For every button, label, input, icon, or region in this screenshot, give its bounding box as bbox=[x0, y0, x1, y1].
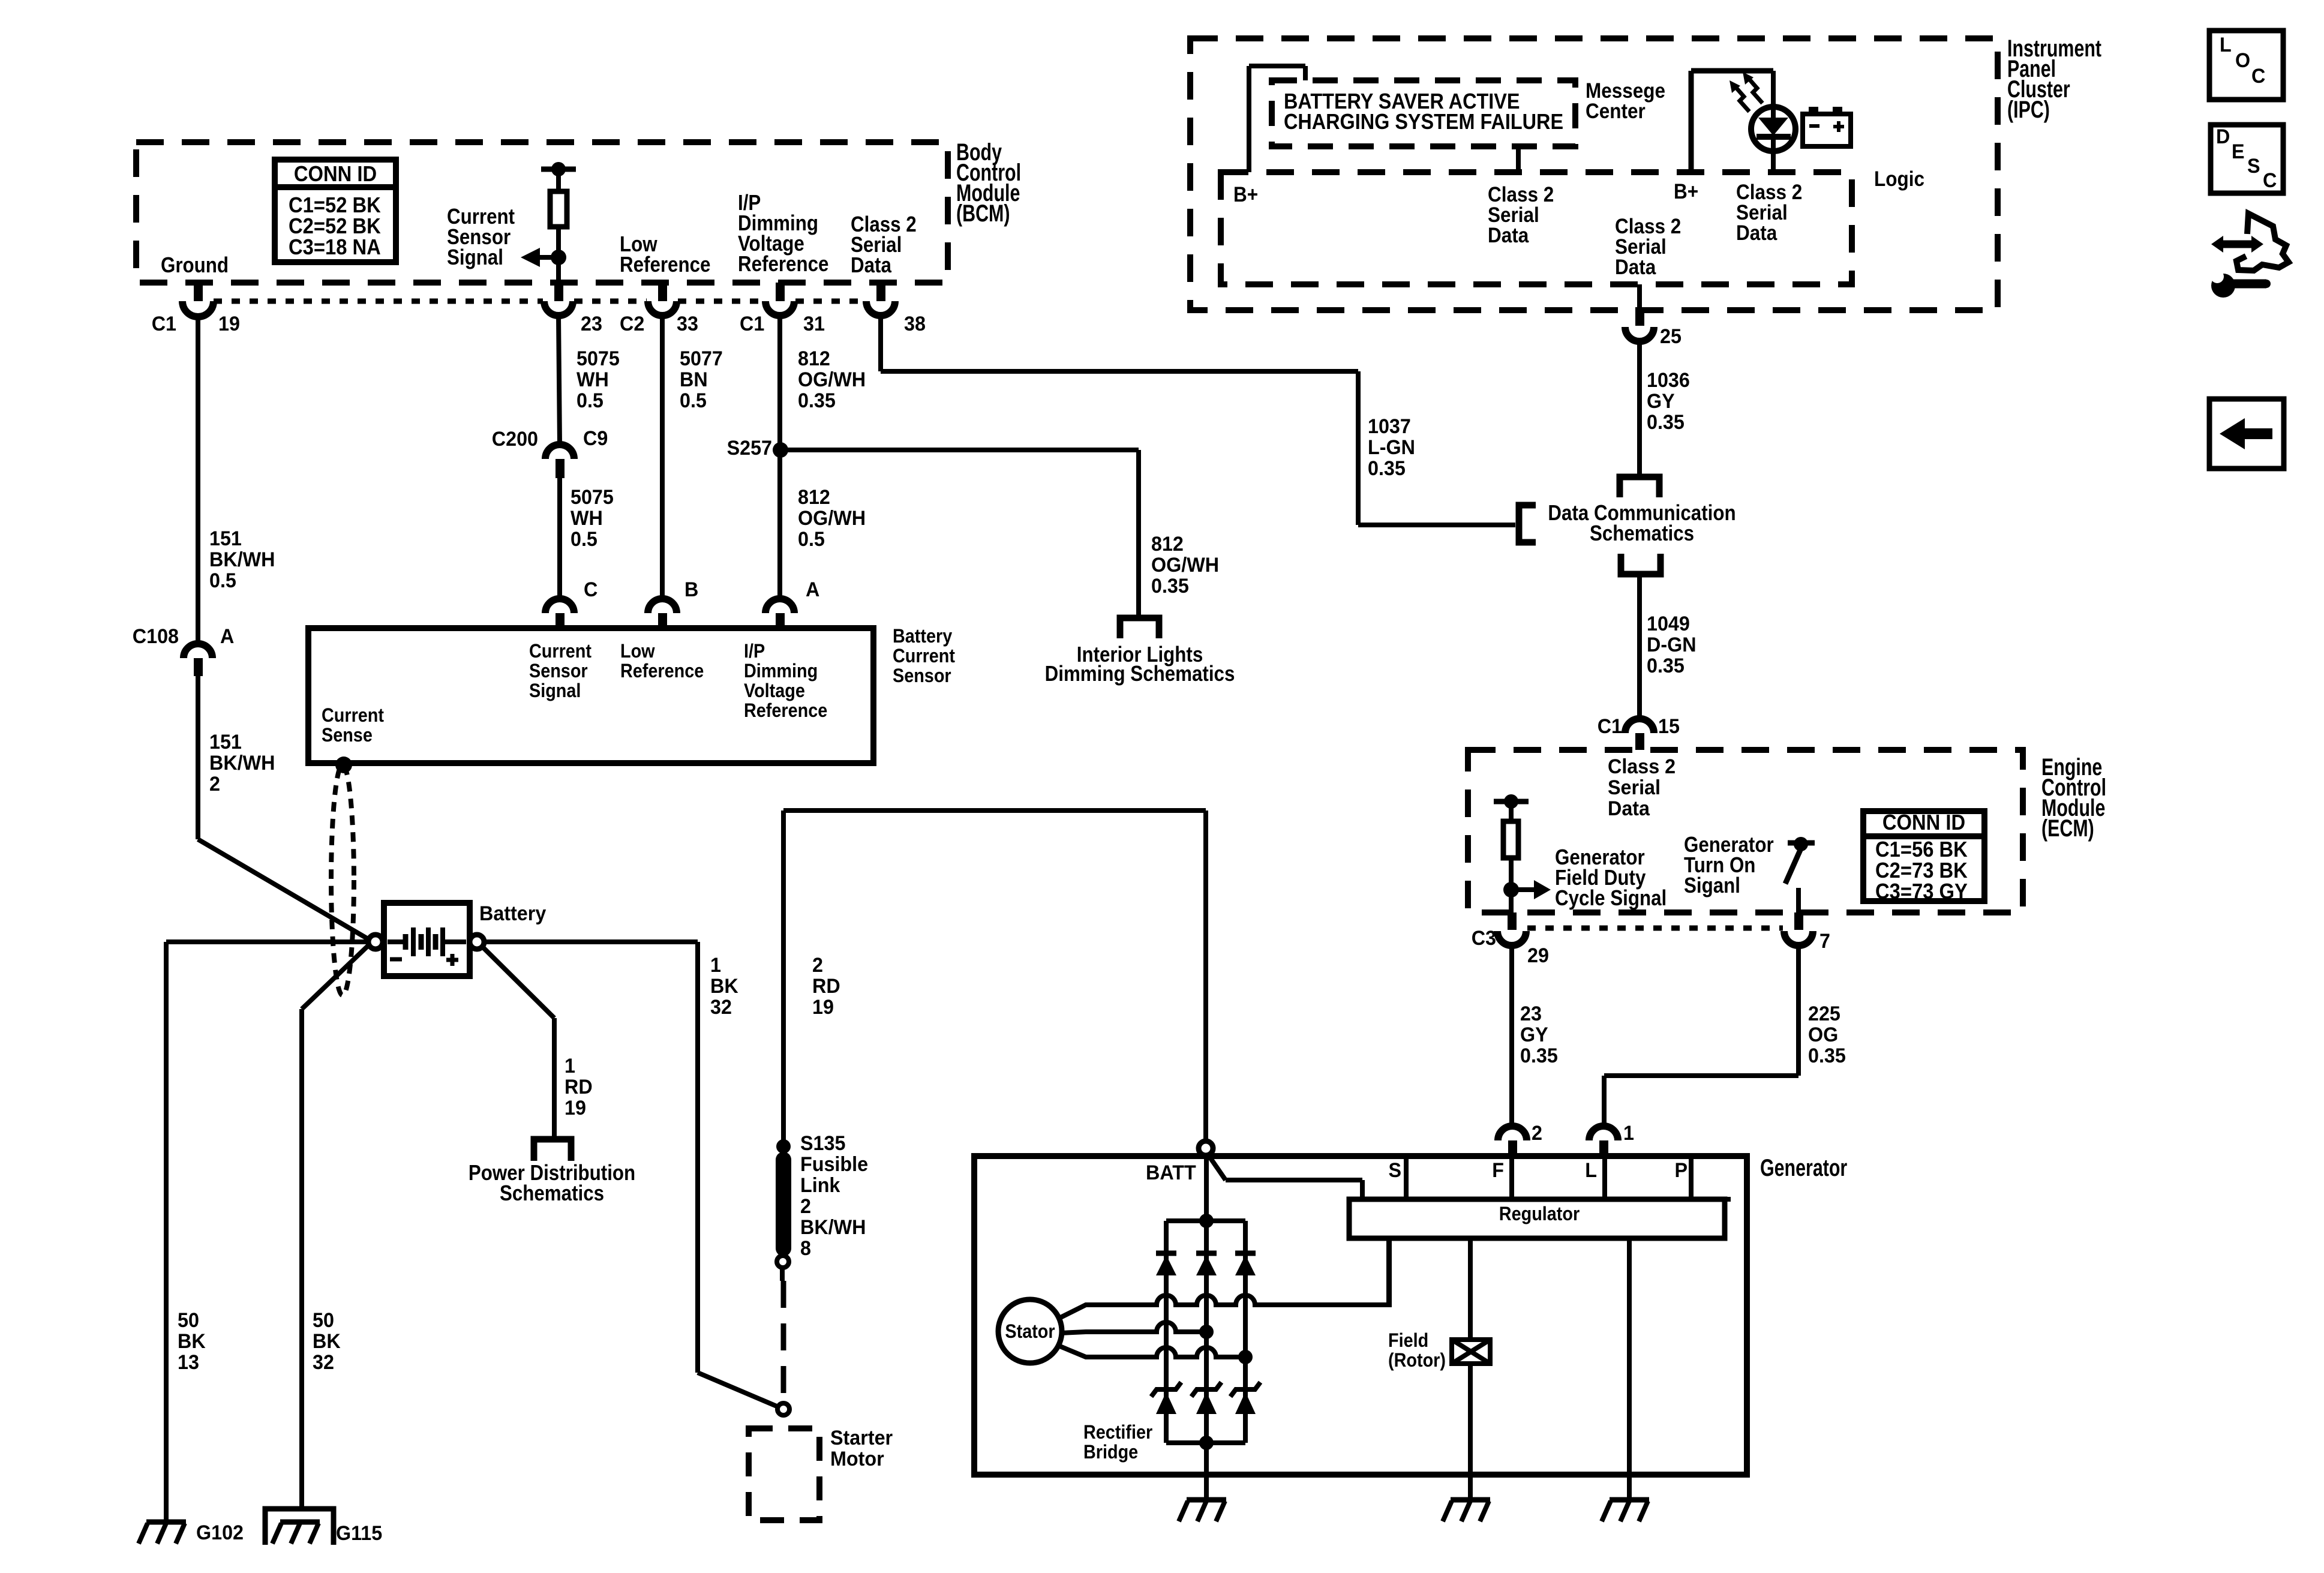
svg-text:WH: WH bbox=[571, 507, 603, 530]
svg-text:C: C bbox=[584, 578, 597, 601]
wire class 2 serial data message center stub bbox=[1516, 146, 1521, 172]
svg-text:D-GN: D-GN bbox=[1647, 634, 1697, 656]
svg-text:50: 50 bbox=[178, 1309, 199, 1332]
wire 5075 WH 0.5 C200 to sensor pin C bbox=[557, 478, 562, 599]
svg-text:CONN ID: CONN ID bbox=[294, 163, 377, 187]
diode zener rectifier bottom bbox=[1191, 1382, 1221, 1397]
wire regulator to field bbox=[1468, 1238, 1473, 1340]
svg-text:(IPC): (IPC) bbox=[2007, 96, 2050, 123]
splice S257 bbox=[773, 442, 788, 458]
node phase 2 junction dot bbox=[1199, 1325, 1214, 1339]
svg-text:Current: Current bbox=[529, 641, 591, 662]
svg-text:1: 1 bbox=[710, 954, 721, 977]
wire battery positive to power distribution 1 RD 19 bbox=[483, 947, 554, 1018]
connector pin BCM C2-33 Low Reference bbox=[658, 283, 667, 301]
svg-text:0.35: 0.35 bbox=[1647, 655, 1685, 677]
connector pin ECM C3-29 generator field duty cycle bbox=[1508, 912, 1517, 930]
generator terminal dividers S F L P bbox=[1404, 1156, 1409, 1199]
diode rectifier top bbox=[1156, 1251, 1176, 1256]
svg-text:2: 2 bbox=[1532, 1122, 1542, 1145]
wire 812 OG/WH BCM 31 to splice S257 to sensor pin A bbox=[777, 316, 782, 599]
diode rectifier top bbox=[1196, 1251, 1217, 1256]
svg-text:Rectifier: Rectifier bbox=[1083, 1422, 1152, 1443]
svg-text:38: 38 bbox=[904, 313, 926, 335]
arrow current sensor signal direction (points left) bbox=[540, 255, 559, 260]
svg-text:225: 225 bbox=[1808, 1002, 1840, 1025]
svg-text:BK/WH: BK/WH bbox=[209, 548, 275, 571]
svg-text:5075: 5075 bbox=[577, 347, 620, 370]
svg-text:Battery: Battery bbox=[479, 902, 547, 925]
icon battery telltale symbol bbox=[1803, 114, 1851, 146]
svg-text:A: A bbox=[220, 625, 234, 648]
svg-text:BK: BK bbox=[313, 1330, 341, 1353]
wire 151 BK/WH 2 from C108 to battery negative bbox=[196, 676, 200, 839]
svg-text:Reference: Reference bbox=[738, 252, 828, 277]
battery B1 bbox=[384, 903, 470, 976]
svg-text:C1=52 BK: C1=52 BK bbox=[289, 194, 381, 218]
module box Instrument Panel Cluster (IPC) bbox=[1190, 38, 1998, 310]
icon box LOC bbox=[2209, 31, 2283, 100]
svg-text:812: 812 bbox=[798, 347, 830, 370]
ground G102 bbox=[146, 1520, 186, 1525]
wire regulator P to ground bbox=[1627, 1238, 1632, 1500]
wire class 2 serial data BCM 38 to data communication bbox=[878, 316, 883, 371]
wire 151 BK/WH 0.5 from BCM ground pin down bbox=[196, 316, 200, 644]
node phase 3 junction dot bbox=[1238, 1350, 1253, 1364]
svg-text:GY: GY bbox=[1520, 1023, 1548, 1046]
submodule box Message Center bbox=[1272, 80, 1575, 146]
svg-text:D: D bbox=[2216, 125, 2230, 148]
svg-text:25: 25 bbox=[1660, 325, 1682, 348]
svg-text:19: 19 bbox=[812, 996, 834, 1019]
svg-text:L: L bbox=[2220, 34, 2232, 56]
svg-text:S: S bbox=[1388, 1159, 1401, 1182]
diode zener rectifier bottom bbox=[1230, 1382, 1260, 1397]
svg-text:F: F bbox=[1492, 1159, 1504, 1182]
svg-text:0.5: 0.5 bbox=[680, 389, 707, 412]
svg-text:BK: BK bbox=[710, 975, 738, 998]
arrow generator field duty cycle signal direction (points right) bbox=[1511, 887, 1534, 892]
svg-text:32: 32 bbox=[710, 996, 732, 1019]
wire 1049 D-GN 0.35 data communication to ECM bbox=[1637, 574, 1642, 719]
svg-text:C1: C1 bbox=[152, 313, 176, 335]
svg-text:Data: Data bbox=[1488, 224, 1529, 248]
svg-text:BK: BK bbox=[178, 1330, 206, 1353]
svg-text:OG: OG bbox=[1808, 1023, 1838, 1046]
svg-text:33: 33 bbox=[677, 313, 698, 335]
svg-text:Data: Data bbox=[1615, 256, 1656, 280]
svg-text:B+: B+ bbox=[1233, 184, 1258, 207]
terminal circle battery negative bbox=[368, 935, 383, 949]
svg-text:Schematics: Schematics bbox=[500, 1181, 604, 1206]
ground G115 bbox=[265, 1509, 334, 1545]
connector pin generator 2 (F) bbox=[1498, 1126, 1527, 1140]
module box Body Control Module (BCM) bbox=[136, 142, 948, 283]
svg-text:L-GN: L-GN bbox=[1368, 436, 1415, 459]
off-page bracket data communication top bbox=[1620, 477, 1659, 497]
icon box back arrow bbox=[2209, 399, 2284, 469]
terminal circle battery positive bbox=[470, 935, 484, 949]
wire stator phase 3 bbox=[1057, 1345, 1245, 1357]
svg-text:1036: 1036 bbox=[1647, 369, 1690, 392]
wire 225 OG 0.35 ECM to generator L terminal bbox=[1796, 945, 1801, 1076]
svg-text:Data: Data bbox=[1736, 222, 1777, 245]
svg-text:C3=73 GY: C3=73 GY bbox=[1875, 880, 1968, 904]
svg-text:Cycle Signal: Cycle Signal bbox=[1555, 886, 1667, 911]
svg-text:29: 29 bbox=[1527, 944, 1549, 967]
svg-text:G102: G102 bbox=[196, 1521, 244, 1544]
svg-text:0.5: 0.5 bbox=[798, 528, 825, 551]
rectifier bridge bbox=[1166, 1218, 1245, 1223]
svg-text:C2=73 BK: C2=73 BK bbox=[1875, 859, 1968, 883]
wire 23 GY 0.35 ECM to generator F terminal bbox=[1509, 945, 1514, 1126]
svg-text:OG/WH: OG/WH bbox=[798, 507, 866, 530]
splice S135 fusible link bbox=[776, 1139, 791, 1154]
svg-text:Field: Field bbox=[1388, 1330, 1428, 1352]
svg-text:13: 13 bbox=[178, 1351, 199, 1374]
svg-text:WH: WH bbox=[577, 368, 609, 391]
svg-text:O: O bbox=[2235, 49, 2250, 72]
wire regulator to stator sense bbox=[1386, 1238, 1391, 1305]
svg-text:Ground: Ground bbox=[161, 253, 229, 278]
off-page bracket Power Distribution Schematics bbox=[534, 1139, 571, 1161]
svg-text:Voltage: Voltage bbox=[744, 680, 805, 702]
svg-text:C200: C200 bbox=[492, 428, 538, 451]
off-page bracket Interior Lights Dimming Schematics bbox=[1120, 618, 1159, 638]
svg-text:G115: G115 bbox=[336, 1522, 382, 1545]
svg-text:8: 8 bbox=[800, 1237, 811, 1260]
svg-text:7: 7 bbox=[1819, 930, 1830, 953]
current sense loop dashed around battery cable bbox=[331, 765, 354, 995]
svg-text:23: 23 bbox=[581, 313, 602, 335]
svg-text:OG/WH: OG/WH bbox=[798, 368, 866, 391]
svg-text:C: C bbox=[2263, 169, 2277, 192]
wire B+ feed to message center bbox=[1247, 66, 1251, 172]
svg-text:1: 1 bbox=[565, 1055, 575, 1077]
svg-text:812: 812 bbox=[1151, 533, 1184, 556]
svg-text:BATT: BATT bbox=[1146, 1161, 1196, 1184]
wire 812 OG/WH 0.35 S257 branch to interior lights dimming bbox=[780, 448, 1139, 452]
svg-text:C3: C3 bbox=[1472, 927, 1496, 950]
node junction dot on ECM field line bbox=[1503, 882, 1519, 897]
icon box DESC bbox=[2211, 125, 2283, 193]
ground generator P terminal bbox=[1610, 1497, 1649, 1503]
table CONN ID (BCM) C1=52 BK C2=52 BK C3=18 NA bbox=[275, 160, 396, 262]
wire BATT to regulator S input bbox=[1208, 1155, 1226, 1180]
svg-text:C: C bbox=[2251, 65, 2265, 88]
node current sense output dot bbox=[335, 757, 352, 773]
svg-text:1: 1 bbox=[1623, 1122, 1634, 1145]
svg-text:Low: Low bbox=[620, 641, 655, 662]
svg-text:Motor: Motor bbox=[830, 1448, 884, 1470]
off-page bracket data communication bottom bbox=[1621, 554, 1661, 574]
svg-text:S135: S135 bbox=[800, 1132, 845, 1155]
field coil Field (Rotor) bbox=[1452, 1340, 1490, 1364]
connector pin BCM 38 Class 2 Serial Data bbox=[876, 283, 885, 301]
svg-text:1049: 1049 bbox=[1647, 613, 1690, 635]
wire dashed fusible link to starter motor bbox=[781, 1281, 786, 1403]
svg-text:32: 32 bbox=[313, 1351, 334, 1374]
svg-text:Starter: Starter bbox=[830, 1427, 893, 1449]
diode rectifier top bbox=[1235, 1251, 1256, 1256]
wire B+ feed to telltale LED bbox=[1689, 71, 1694, 172]
node junction dot on BCM sensor line bbox=[551, 250, 566, 265]
svg-text:Center: Center bbox=[1586, 100, 1646, 124]
svg-text:C108: C108 bbox=[133, 625, 179, 648]
svg-text:5077: 5077 bbox=[680, 347, 723, 370]
LED light arrows bbox=[1736, 87, 1749, 112]
connector pin A on battery current sensor bbox=[765, 599, 794, 613]
connector pin BCM 23 Current Sensor Signal bbox=[554, 283, 563, 301]
svg-text:Sensor: Sensor bbox=[529, 661, 588, 682]
svg-text:Current: Current bbox=[893, 646, 955, 667]
svg-text:Sensor: Sensor bbox=[893, 665, 951, 687]
wire stator phase 1 to regulator bbox=[1058, 1238, 1389, 1319]
wire 5075 WH 0.5 BCM 23 to C200 bbox=[559, 316, 560, 445]
svg-text:B: B bbox=[684, 578, 698, 601]
svg-text:Reference: Reference bbox=[744, 700, 827, 722]
svg-text:C1: C1 bbox=[740, 313, 764, 335]
wire stator phase 2 bbox=[1061, 1322, 1206, 1333]
connector C108 pin A inline bbox=[184, 644, 212, 658]
svg-text:BN: BN bbox=[680, 368, 708, 391]
connector pin ECM C1-15 class 2 serial data bbox=[1625, 719, 1654, 733]
ground generator field bbox=[1451, 1497, 1490, 1503]
svg-text:(Rotor): (Rotor) bbox=[1388, 1350, 1446, 1371]
svg-text:5075: 5075 bbox=[571, 486, 614, 509]
connector pin C on battery current sensor bbox=[545, 599, 574, 613]
svg-text:0.5: 0.5 bbox=[209, 569, 236, 592]
svg-text:GY: GY bbox=[1647, 390, 1675, 413]
svg-text:2: 2 bbox=[209, 773, 220, 795]
svg-text:BK/WH: BK/WH bbox=[800, 1216, 866, 1239]
svg-text:P: P bbox=[1674, 1159, 1688, 1182]
svg-text:0.35: 0.35 bbox=[1520, 1044, 1558, 1067]
svg-text:Schematics: Schematics bbox=[1590, 521, 1694, 546]
svg-text:Data: Data bbox=[851, 253, 891, 278]
svg-text:S: S bbox=[2247, 155, 2260, 178]
svg-text:31: 31 bbox=[803, 313, 825, 335]
svg-text:2: 2 bbox=[812, 954, 823, 977]
svg-text:C2=52 BK: C2=52 BK bbox=[289, 215, 381, 239]
svg-text:0.35: 0.35 bbox=[798, 389, 836, 412]
module box Engine Control Module (ECM) bbox=[1468, 750, 2023, 912]
svg-text:Fusible: Fusible bbox=[800, 1153, 868, 1176]
svg-text:S257: S257 bbox=[727, 437, 772, 460]
module box Starter Motor (dashed) bbox=[749, 1428, 819, 1520]
svg-text:2: 2 bbox=[800, 1195, 811, 1218]
svg-text:CONN ID: CONN ID bbox=[1882, 811, 1965, 835]
svg-text:Serial: Serial bbox=[1608, 776, 1661, 799]
svg-text:Logic: Logic bbox=[1874, 168, 1924, 191]
stator bbox=[998, 1299, 1062, 1363]
svg-text:A: A bbox=[806, 578, 819, 601]
svg-text:Signal: Signal bbox=[447, 245, 503, 270]
icon engine data with wrench bbox=[2236, 214, 2289, 271]
table CONN ID (ECM) C1=56 BK C2=73 BK C3=73 GY bbox=[1863, 811, 1984, 901]
submodule box Logic (IPC) bbox=[1221, 172, 1852, 284]
wire battery positive to starter motor 1 BK 32 bbox=[484, 939, 698, 944]
module box Generator bbox=[974, 1156, 1747, 1475]
svg-text:Dimming Schematics: Dimming Schematics bbox=[1045, 662, 1235, 686]
svg-text:Class 2: Class 2 bbox=[1608, 755, 1676, 778]
connector pin B on battery current sensor bbox=[648, 599, 677, 613]
wire 5077 BN 0.5 BCM 33 to sensor pin B bbox=[660, 316, 665, 599]
svg-text:Regulator: Regulator bbox=[1499, 1203, 1580, 1225]
svg-text:RD: RD bbox=[565, 1076, 593, 1098]
svg-text:OG/WH: OG/WH bbox=[1151, 554, 1219, 577]
svg-text:Reference: Reference bbox=[620, 661, 704, 682]
svg-text:0.35: 0.35 bbox=[1808, 1044, 1846, 1067]
terminal circle generator BATT bbox=[1199, 1141, 1213, 1155]
LED charge indicator telltale bbox=[1771, 71, 1776, 118]
resistor internal BCM current sensor pull-up bbox=[541, 167, 576, 172]
svg-text:0.35: 0.35 bbox=[1647, 411, 1685, 434]
svg-text:Reference: Reference bbox=[620, 253, 710, 277]
svg-text:C3=18 NA: C3=18 NA bbox=[289, 236, 381, 260]
svg-text:15: 15 bbox=[1658, 715, 1680, 738]
svg-text:1037: 1037 bbox=[1368, 415, 1411, 438]
svg-text:151: 151 bbox=[209, 731, 242, 754]
svg-text:Current: Current bbox=[322, 705, 384, 727]
wire field coil to ground bbox=[1468, 1364, 1473, 1500]
resistor internal ECM generator field driver bbox=[1494, 799, 1529, 804]
svg-text:50: 50 bbox=[313, 1309, 334, 1332]
connector pin IPC 25 class 2 serial data bbox=[1637, 284, 1642, 307]
svg-text:Stator: Stator bbox=[1005, 1321, 1055, 1343]
svg-text:RD: RD bbox=[812, 975, 840, 998]
connector pin BCM C1-31 I/P Dimming Voltage Reference bbox=[776, 283, 785, 301]
svg-text:Generator: Generator bbox=[1760, 1154, 1847, 1181]
connector pin generator 1 (L) bbox=[1589, 1126, 1618, 1140]
connector pin BCM C1-19 Ground bbox=[194, 283, 203, 301]
terminal circle starter motor battery stud bbox=[777, 1403, 789, 1415]
svg-text:C9: C9 bbox=[583, 427, 608, 450]
connector pin ECM 7 generator turn on signal bbox=[1794, 912, 1803, 930]
wire battery negative to G102 bbox=[166, 939, 368, 944]
svg-text:Battery: Battery bbox=[893, 626, 952, 647]
svg-text:Link: Link bbox=[800, 1174, 840, 1197]
svg-text:Signal: Signal bbox=[529, 680, 581, 702]
connector face dotted line ECM bottom bbox=[1527, 926, 1783, 931]
svg-text:BK/WH: BK/WH bbox=[209, 752, 275, 775]
svg-text:0.5: 0.5 bbox=[571, 528, 597, 551]
wire 1036 GY 0.35 IPC to data communication bbox=[1637, 341, 1642, 477]
svg-text:0.5: 0.5 bbox=[577, 389, 603, 412]
svg-text:(BCM): (BCM) bbox=[956, 200, 1010, 227]
svg-text:0.35: 0.35 bbox=[1368, 457, 1406, 480]
svg-text:C1: C1 bbox=[1598, 715, 1622, 738]
svg-text:19: 19 bbox=[218, 313, 240, 335]
wire rectifier to ground bbox=[1204, 1475, 1209, 1500]
svg-text:I/P: I/P bbox=[744, 641, 765, 662]
svg-text:(ECM): (ECM) bbox=[2041, 815, 2094, 842]
svg-text:Bridge: Bridge bbox=[1083, 1442, 1138, 1463]
svg-text:151: 151 bbox=[209, 527, 242, 550]
svg-text:E: E bbox=[2232, 140, 2245, 163]
diode zener rectifier bottom bbox=[1151, 1382, 1181, 1397]
wire battery negative to G115 bbox=[302, 945, 368, 1009]
module box Battery Current Sensor bbox=[308, 628, 873, 763]
svg-text:Data: Data bbox=[1608, 797, 1650, 820]
svg-text:C1=56 BK: C1=56 BK bbox=[1875, 838, 1968, 862]
svg-text:Siganl: Siganl bbox=[1684, 873, 1740, 898]
connector C200 / C9 inline bbox=[545, 445, 574, 459]
off-page bracket data communication left bbox=[1519, 505, 1536, 542]
svg-text:19: 19 bbox=[565, 1097, 586, 1119]
switch internal ECM generator turn on bbox=[1788, 840, 1815, 846]
regulator box bbox=[1349, 1199, 1725, 1238]
connector face dotted line BCM bottom bbox=[214, 299, 543, 304]
svg-text:Dimming: Dimming bbox=[744, 661, 818, 682]
svg-text:812: 812 bbox=[798, 486, 830, 509]
svg-text:0.35: 0.35 bbox=[1151, 575, 1189, 598]
svg-text:CHARGING SYSTEM FAILURE: CHARGING SYSTEM FAILURE bbox=[1284, 110, 1563, 134]
svg-text:Sense: Sense bbox=[322, 725, 373, 746]
svg-text:L: L bbox=[1585, 1159, 1597, 1182]
wire 2 RD 19 battery positive feed to generator BATT bbox=[781, 810, 786, 1152]
svg-text:23: 23 bbox=[1520, 1002, 1542, 1025]
ground generator rectifier bbox=[1187, 1497, 1226, 1503]
svg-text:C2: C2 bbox=[620, 313, 644, 335]
svg-text:B+: B+ bbox=[1674, 181, 1698, 204]
